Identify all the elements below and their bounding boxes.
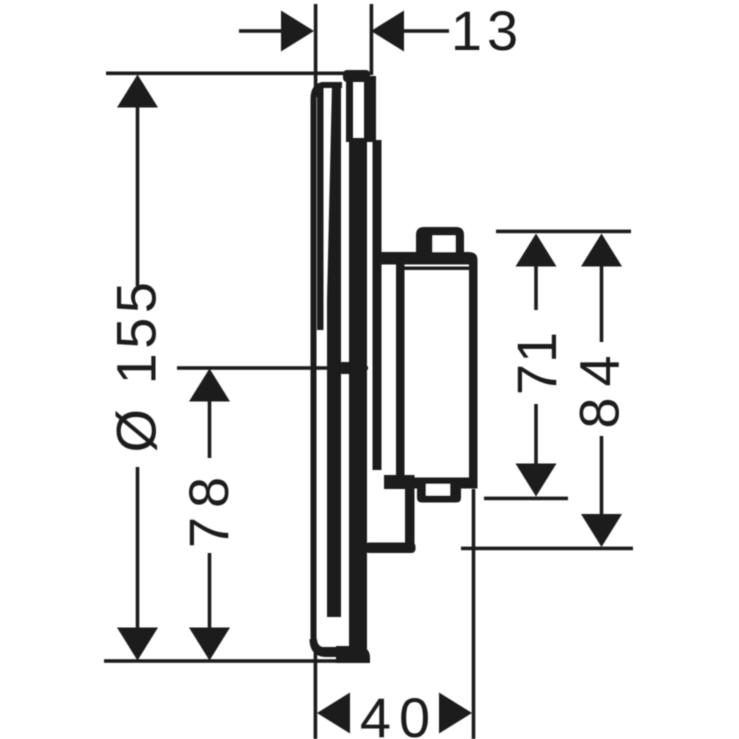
valve body right wall (469, 264, 478, 479)
dim 40 right arrow (439, 693, 472, 734)
bottom stub (417, 484, 461, 503)
dim 84 bottom extension line (461, 547, 633, 551)
svg-text:Ø 155: Ø 155 (105, 277, 168, 452)
escutcheon plate back wall (327, 84, 341, 617)
dim 13 label (451, 0, 523, 62)
cartridge stem knob (416, 227, 464, 254)
dim 84 label (568, 344, 631, 428)
dim 13 left arrow (239, 11, 314, 52)
dim 71 bottom extension line (484, 497, 568, 501)
sleeve rung connector (341, 362, 350, 374)
dim 155 bottom extension line (104, 659, 342, 663)
bracket foot bottom (365, 543, 416, 554)
dim 78 line lower segment with down arrow (189, 553, 230, 661)
valve body inner top line (399, 267, 471, 271)
svg-text:84: 84 (568, 344, 631, 428)
mounting sleeve body (349, 138, 367, 659)
escutcheon plate inner front line (317, 88, 324, 330)
dim 155 top extension line (106, 72, 344, 76)
bracket step (384, 475, 410, 489)
hanging bracket bar (373, 140, 382, 470)
dim 40 right extension line (472, 489, 476, 739)
dim 78 label (177, 468, 240, 548)
valve body top cap (378, 252, 478, 265)
dim 71 top extension line (496, 230, 631, 234)
dim 40 label (360, 686, 438, 739)
plate bottom cap back (336, 646, 370, 663)
dim 13 right arrow (371, 11, 449, 52)
mounting sleeve left wall top (346, 76, 353, 142)
dim 78 extension line (177, 366, 368, 370)
dim 71 label (505, 331, 568, 395)
escutcheon plate front face (314, 85, 343, 650)
valve body left wall (396, 264, 405, 479)
dim 71 line lower segment with down arrow (516, 404, 557, 497)
mounting sleeve right wall top (364, 76, 376, 142)
svg-text:78: 78 (177, 468, 240, 548)
valve body bottom cap (394, 478, 478, 489)
dim 84 line upper segment with up arrow (581, 234, 622, 343)
dim 71 line upper segment with up arrow (516, 234, 557, 311)
mounting sleeve top cap (343, 70, 370, 82)
dim 155 line upper segment with up arrow (117, 75, 158, 287)
dim 40 left extension line (314, 640, 318, 739)
svg-text:40: 40 (360, 686, 438, 739)
dim 84 line lower segment with down arrow (581, 436, 622, 547)
dim 155 label (105, 277, 168, 452)
dim 155 line lower segment with down arrow (117, 467, 158, 661)
dim 13 right extension line (370, 4, 374, 75)
dim 13 left extension line (314, 4, 318, 97)
plate bottom cap front (313, 639, 342, 654)
svg-text:13: 13 (451, 0, 523, 62)
dim 40 left arrow (317, 693, 350, 734)
dim 78 line upper segment with up arrow (189, 369, 230, 459)
bracket foot wall (405, 475, 415, 552)
svg-text:71: 71 (505, 331, 568, 395)
